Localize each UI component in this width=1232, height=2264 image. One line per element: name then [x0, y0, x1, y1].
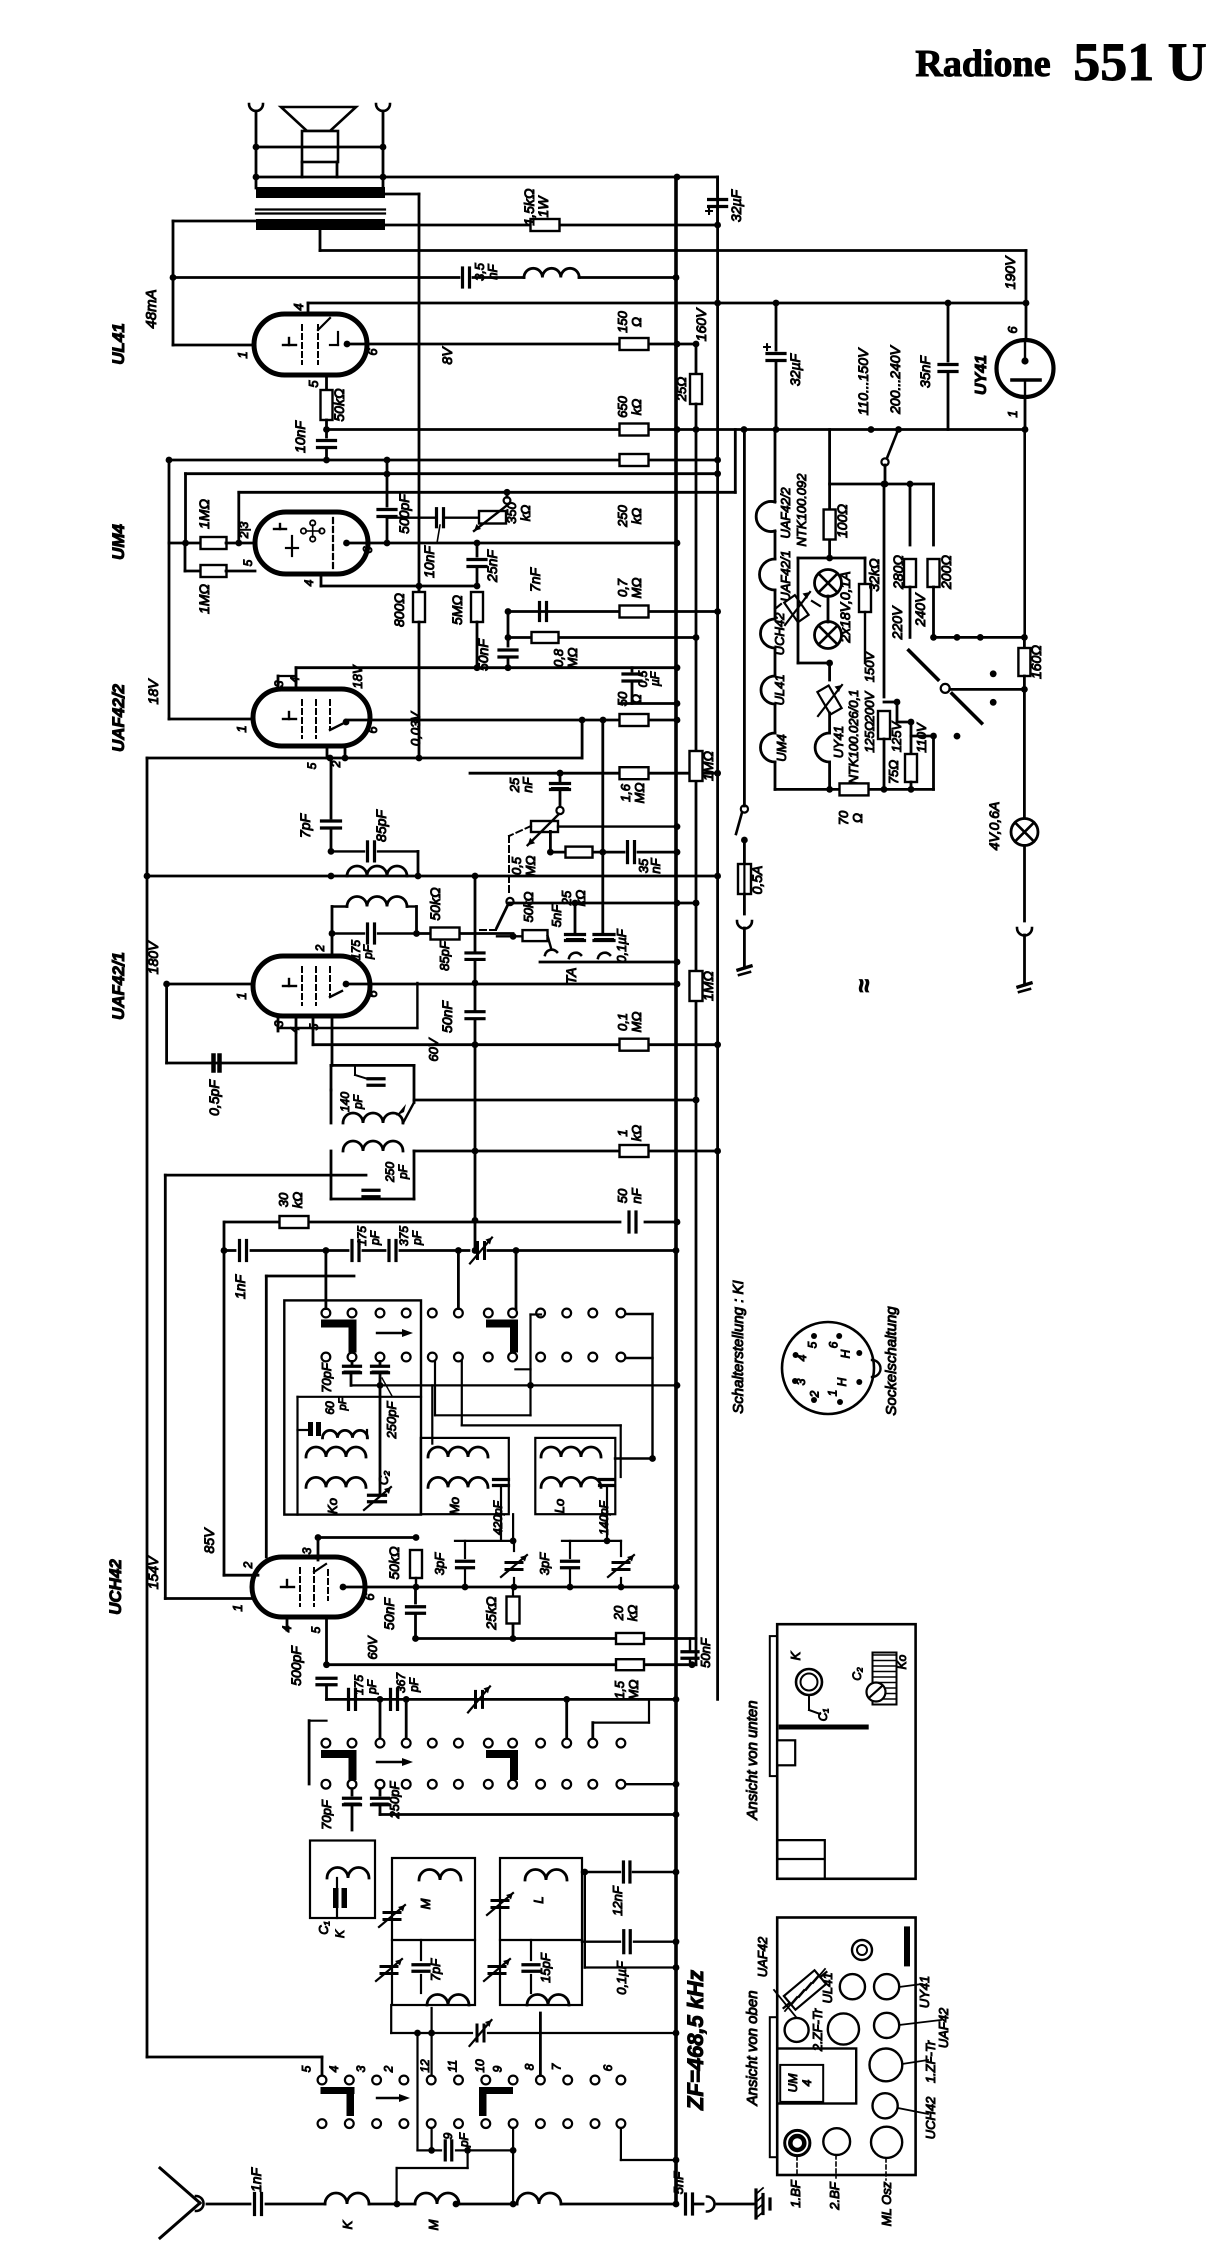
svg-text:H: H — [835, 1377, 849, 1386]
resistor 50kohm och — [410, 1550, 422, 1578]
wire transformer bottom to 190V line — [319, 230, 322, 251]
capacitor 50nF det — [466, 1010, 484, 1013]
M coil bottom — [427, 1995, 469, 2006]
resistor 1Mohm grid 1 — [169, 542, 201, 545]
heater chain bumps UAF42/2 UAF42/1 UCH42 UL41 UM4 — [774, 430, 777, 503]
svg-text:pF: pF — [368, 1230, 382, 1246]
svg-text:15pF: 15pF — [538, 1952, 553, 1983]
wire pin3 50kohm line — [318, 1536, 416, 1539]
svg-text:pF: pF — [361, 944, 375, 960]
svg-text:18V: 18V — [350, 664, 365, 688]
tube circle 2ZF-Tr — [828, 2013, 859, 2044]
switch1 enclosure — [284, 1300, 421, 1514]
svg-text:200...240V: 200...240V — [887, 344, 903, 414]
wire 20kohm line 1638 — [416, 1637, 697, 1640]
svg-text:60V: 60V — [365, 1635, 380, 1659]
svg-text:UCH42: UCH42 — [923, 2096, 938, 2139]
Ko coil b — [306, 1447, 366, 1457]
hook ant ground — [707, 2197, 715, 2212]
UM4 electrodes magic eye — [274, 528, 286, 530]
inductor smoothing choke — [524, 268, 579, 277]
UL41 pin 6 wire — [344, 341, 351, 348]
svg-text:160V: 160V — [693, 307, 709, 341]
wire pot bottom — [549, 831, 552, 852]
svg-text:6: 6 — [365, 726, 380, 734]
wire x602 TA — [601, 720, 604, 934]
svg-text:1: 1 — [615, 1129, 630, 1136]
wire anode line 303 — [308, 302, 1026, 305]
switch1 rotor contact L2 — [486, 1320, 518, 1328]
wire 1,6Mohm line 773 — [470, 772, 718, 775]
UL41 electrodes — [283, 344, 296, 346]
wire 150V tap — [894, 699, 901, 706]
trimmer antenna osc — [476, 1243, 479, 1259]
coil Ko unten — [873, 1653, 897, 1705]
chassis bar — [779, 1725, 869, 1730]
svg-text:9: 9 — [441, 2132, 455, 2139]
svg-text:1: 1 — [234, 725, 249, 732]
svg-text:25nF: 25nF — [484, 549, 500, 583]
socket pins — [793, 1352, 799, 1358]
svg-text:175: 175 — [352, 1675, 366, 1695]
resistor 25ohm on 696 — [693, 341, 700, 348]
capacitor 35nF — [947, 303, 950, 361]
svg-text:110...150V: 110...150V — [855, 347, 871, 415]
svg-text:nF: nF — [520, 776, 535, 792]
switch3 rotor L2 — [479, 2087, 513, 2094]
svg-text:UY41: UY41 — [831, 726, 846, 759]
capacitor 85pF b — [332, 932, 364, 934]
svg-text:18V: 18V — [145, 678, 161, 705]
UL41 pin 4 — [307, 303, 310, 314]
capacitor 5nF ant — [684, 2194, 687, 2214]
wire 48mA loop — [173, 220, 256, 223]
wire selector to 160ohm line — [934, 636, 1025, 639]
svg-text:50kΩ: 50kΩ — [521, 891, 536, 922]
svg-text:3: 3 — [272, 680, 286, 687]
mains voltage selector top line — [830, 483, 934, 486]
svg-text:7nF: 7nF — [527, 566, 543, 592]
wire osc line 1151 — [414, 1150, 718, 1153]
L coil bottom — [527, 1995, 569, 2006]
svg-text:2x18V,0,1A: 2x18V,0,1A — [837, 571, 853, 643]
svg-text:30: 30 — [276, 1192, 291, 1207]
wire l box mid — [500, 1939, 582, 1941]
bar right — [904, 1926, 910, 1966]
svg-text:1: 1 — [826, 1390, 840, 1397]
svg-text:20: 20 — [611, 1605, 626, 1621]
resistor 160ohm — [1023, 430, 1026, 638]
svg-text:pF: pF — [351, 1094, 365, 1110]
capacitor 140pF — [368, 1077, 384, 1080]
wire pin3 elbow — [416, 983, 418, 1028]
svg-text:250pF: 250pF — [384, 1401, 399, 1440]
switch1 interconnects — [351, 1384, 677, 1386]
wire line 492 wiper — [239, 491, 736, 494]
speaker terminal hook right — [376, 104, 390, 111]
wire line 667 pin3 UAF42/2 — [296, 666, 677, 669]
dial lamps box — [798, 557, 865, 560]
svg-text:Ko: Ko — [895, 1654, 909, 1669]
svg-text:6: 6 — [827, 1341, 841, 1348]
resistor 250kohm — [620, 454, 649, 466]
svg-text:650: 650 — [615, 395, 630, 417]
wire 9pF return to antenna line — [467, 2150, 469, 2168]
wire speaker right — [382, 111, 385, 188]
wire 60V line 1044 — [313, 1043, 718, 1046]
svg-text:8: 8 — [522, 2063, 536, 2070]
capacitor 7nF — [538, 603, 541, 621]
capacitor 3,5nF — [461, 268, 464, 287]
capacitor 3pF 2 — [569, 1541, 571, 1558]
svg-text:UM4: UM4 — [774, 734, 789, 761]
thermistor NTK100.026 — [817, 686, 841, 715]
svg-text:5: 5 — [305, 762, 319, 769]
switch3 row contacts — [318, 2076, 327, 2085]
svg-text:6: 6 — [362, 1593, 377, 1601]
svg-text:1,5: 1,5 — [612, 1680, 627, 1699]
pilot lamp 4V 0,6A — [1011, 819, 1038, 846]
wire 3pF hang line 1 — [455, 1540, 513, 1542]
capacitor 10nF — [318, 439, 336, 442]
svg-text:pF: pF — [457, 2132, 471, 2148]
svg-text:nF: nF — [648, 857, 663, 873]
svg-text:Ko: Ko — [325, 1498, 340, 1514]
switch4 row contacts — [318, 2119, 327, 2128]
dashed linkage — [509, 826, 531, 836]
svg-text:140pF: 140pF — [597, 1500, 611, 1535]
capacitor 0,5pF — [165, 984, 168, 1063]
svg-text:190V: 190V — [1002, 255, 1018, 289]
svg-text:+: + — [763, 340, 772, 356]
svg-text:10nF: 10nF — [292, 420, 308, 453]
svg-text:H: H — [839, 1349, 853, 1358]
switch1 rotor contact L1 — [321, 1320, 356, 1328]
svg-text:4V,0,6A: 4V,0,6A — [986, 802, 1002, 851]
svg-text:kΩ: kΩ — [625, 1605, 640, 1622]
svg-text:0,5: 0,5 — [509, 856, 524, 875]
Ko coil a — [323, 1430, 368, 1437]
svg-text:5: 5 — [300, 2065, 314, 2072]
svg-text:70pF: 70pF — [319, 1362, 334, 1393]
resistor 0,7Mohm — [620, 606, 649, 618]
svg-text:kΩ: kΩ — [629, 508, 644, 525]
svg-text:UCH42: UCH42 — [106, 1559, 125, 1615]
svg-text:1.ZF-Tr: 1.ZF-Tr — [923, 2040, 938, 2083]
svg-text:10: 10 — [473, 2059, 487, 2073]
svg-text:150V: 150V — [862, 650, 877, 682]
svg-text:50kΩ: 50kΩ — [386, 1546, 402, 1580]
svg-text:1MΩ: 1MΩ — [196, 584, 212, 614]
tube UM4 — [255, 512, 368, 574]
tube circle UY41 oben — [874, 1974, 899, 1999]
capacitor 1nF antenna — [207, 2203, 250, 2206]
svg-text:6: 6 — [601, 2064, 615, 2071]
transformer core — [256, 208, 385, 210]
svg-text:12: 12 — [418, 2059, 432, 2073]
svg-text:5nF: 5nF — [549, 904, 564, 927]
svg-text:4: 4 — [280, 1625, 294, 1632]
svg-text:100Ω: 100Ω — [834, 504, 850, 538]
svg-text:UM: UM — [786, 2074, 800, 2093]
wire line 1967 to bus — [585, 1966, 676, 1968]
left notch — [777, 1740, 795, 1765]
svg-text:6: 6 — [365, 990, 380, 998]
wire lamp branch — [828, 430, 831, 559]
svg-text:pF: pF — [410, 1230, 424, 1246]
svg-text:2: 2 — [807, 1390, 821, 1398]
Mo coil a — [428, 1447, 488, 1457]
wire line 703 — [619, 702, 677, 705]
svg-text:2.BF: 2.BF — [827, 2181, 842, 2211]
speaker terminal hook left — [249, 104, 263, 111]
wire 1nF line 1250 — [223, 1222, 226, 1575]
trimmer C2 — [369, 1494, 386, 1497]
resistor 20kohm — [616, 1633, 644, 1644]
crystal symbol — [778, 1965, 832, 2015]
resistor 32kohm lamp shunt — [864, 558, 867, 584]
trimmer l1 — [492, 1899, 508, 1902]
svg-text:UY41: UY41 — [973, 355, 990, 395]
svg-text:9: 9 — [491, 2065, 505, 2072]
svg-text:250: 250 — [383, 1162, 397, 1183]
wire 140pF to 1Mohm line — [414, 1099, 696, 1102]
svg-text:240V: 240V — [912, 592, 928, 627]
svg-text:0,5A: 0,5A — [749, 866, 765, 895]
svg-text:85pF: 85pF — [373, 809, 389, 842]
C1 box coil — [327, 1868, 369, 1879]
output transformer winding primary — [256, 187, 385, 198]
svg-text:K: K — [333, 1929, 347, 1938]
svg-text:UAF42/2: UAF42/2 — [778, 487, 793, 539]
tube circle UAF42 oben — [785, 2018, 809, 2042]
UAF42/1 pin1 — [167, 983, 253, 986]
svg-text:nF: nF — [629, 1187, 644, 1203]
svg-text:UL41: UL41 — [820, 1972, 835, 2003]
svg-text:NTK100.026/0,1: NTK100.026/0,1 — [846, 690, 861, 785]
tube circle UAF42b oben — [874, 2013, 899, 2038]
ta jack 2 — [569, 953, 581, 958]
svg-text:4: 4 — [302, 579, 316, 586]
UAF42/1 pin2 — [331, 934, 334, 957]
Lo coil a — [541, 1447, 601, 1457]
svg-text:Ω: Ω — [850, 813, 865, 823]
svg-text:4: 4 — [795, 1354, 809, 1361]
svg-text:MΩ: MΩ — [565, 648, 580, 669]
svg-text:6: 6 — [360, 546, 375, 554]
switch3 rotor L1 — [321, 2087, 355, 2094]
svg-text:UAF42/1: UAF42/1 — [109, 952, 128, 1020]
wire x475 vert — [474, 876, 477, 951]
wire osc grid line 1699 — [327, 1698, 677, 1701]
svg-text:UAF42: UAF42 — [936, 2007, 951, 2048]
wire 12nF line 1872 — [582, 1871, 620, 1873]
capacitor 10nF coupling — [387, 517, 434, 519]
capacitor 3pF 1 — [464, 1541, 466, 1558]
svg-text:kΩ: kΩ — [290, 1192, 305, 1209]
tube UAF42/2 — [253, 689, 370, 746]
svg-text:5: 5 — [306, 380, 321, 388]
UAF42/1 pins bottom 3 4 5 — [277, 1016, 280, 1031]
voltage selector rotary switch — [909, 650, 938, 679]
svg-text:48mA: 48mA — [143, 289, 160, 328]
resistor 50kohm if — [431, 928, 460, 940]
resistor 100ohm — [824, 510, 836, 540]
capacitor 15pF — [530, 1940, 532, 1960]
svg-text:1: 1 — [234, 992, 249, 999]
wire 25kohm 35nF line 852 — [550, 851, 624, 854]
svg-text:50: 50 — [615, 1188, 630, 1203]
svg-text:2.ZF-Tr: 2.ZF-Tr — [810, 2008, 825, 2052]
Lo box — [535, 1438, 615, 1514]
svg-text:6: 6 — [365, 348, 380, 356]
svg-text:367: 367 — [394, 1672, 408, 1693]
capacitor 35nF series — [626, 842, 629, 863]
capacitor 85pF on 475 — [466, 951, 484, 954]
wire 3,5nF line — [173, 276, 459, 279]
svg-text:MΩ: MΩ — [629, 1012, 644, 1033]
svg-text:500pF: 500pF — [288, 1645, 304, 1686]
UY41 pin 6 — [1025, 251, 1028, 341]
wire 0,8Mohm line 637 — [508, 636, 696, 639]
L coil top — [525, 1870, 567, 1881]
tube UAF42/1 — [253, 956, 370, 1016]
svg-text:32kΩ: 32kΩ — [866, 558, 882, 592]
capacitor 7pF m — [420, 1940, 422, 1960]
UCH42 pins 4 5 — [286, 1617, 289, 1630]
svg-text:ML Osz: ML Osz — [879, 2181, 894, 2226]
svg-text:5MΩ: 5MΩ — [449, 595, 465, 625]
resistor 1,5Mohm — [616, 1659, 644, 1670]
wire line 302 right segment — [1023, 300, 1030, 307]
wire fuse to plug — [743, 894, 746, 914]
svg-text:Lo: Lo — [552, 1499, 567, 1513]
svg-text:C₁: C₁ — [816, 1709, 830, 1722]
svg-text:4: 4 — [291, 303, 306, 310]
wire line 903 — [509, 902, 696, 905]
svg-text:200Ω: 200Ω — [938, 555, 954, 590]
140pF box coil — [343, 1113, 403, 1123]
UM4 pin stubs — [226, 542, 255, 545]
resistor 800ohm — [418, 586, 421, 592]
wire stubs osc row — [379, 1699, 382, 1738]
svg-text:150: 150 — [615, 310, 630, 332]
Lo coil b — [541, 1477, 601, 1487]
bus dots — [693, 1097, 700, 1104]
resistor 50kohm ta — [510, 933, 517, 940]
resistor 75ohm — [905, 754, 917, 782]
capacitor 250pF osc2 — [379, 1789, 382, 1795]
svg-text:Ω: Ω — [629, 317, 644, 327]
svg-text:5: 5 — [309, 1626, 323, 1633]
wire 0,1uF line 1941 — [582, 1940, 620, 1942]
ta jack 1 — [548, 936, 551, 948]
switch2 row2 contacts — [322, 1780, 331, 1789]
wire pot to bus 826 — [558, 825, 677, 827]
wire 85V in — [224, 1574, 258, 1577]
svg-text:32µF: 32µF — [728, 188, 744, 222]
svg-text:nF: nF — [485, 263, 500, 279]
trimmer 70pF osc — [351, 1789, 354, 1795]
UCH42 pin1 — [165, 1597, 254, 1600]
svg-text:0,8: 0,8 — [551, 648, 566, 667]
Ko box cap 60pF — [308, 1422, 313, 1436]
circle 2.BF — [823, 2128, 850, 2155]
IF transformer 1 cap 85pF — [331, 850, 364, 852]
250pF box coil — [343, 1141, 403, 1151]
UL41 pin 1 — [173, 344, 254, 347]
screw Ko — [867, 1683, 886, 1702]
svg-text:UAF42/1: UAF42/1 — [778, 550, 793, 601]
svg-text:50nF: 50nF — [381, 1597, 397, 1630]
svg-text:3: 3 — [794, 1378, 808, 1385]
circle ML Osz — [871, 2127, 902, 2158]
wire line 877 — [147, 875, 718, 878]
svg-text:2: 2 — [241, 1561, 255, 1569]
fuse 0,5A — [743, 840, 746, 864]
dial lamp 1 — [815, 570, 842, 597]
svg-text:551 U: 551 U — [1073, 32, 1207, 92]
capacitor 32uF electrolytic top — [716, 177, 719, 196]
trimmer och — [474, 1691, 477, 1707]
svg-text:280Ω: 280Ω — [890, 555, 906, 590]
UY41 pin 1 — [1024, 397, 1027, 430]
svg-text:140: 140 — [338, 1092, 352, 1112]
resistor 70ohm — [840, 783, 869, 795]
trimmer mo — [513, 1541, 515, 1551]
svg-text:K: K — [340, 2219, 355, 2229]
resistor 280ohm — [909, 484, 912, 545]
resistor 0,8Mohm — [532, 632, 559, 643]
capacitor 250pF — [331, 1198, 414, 1201]
antenna coil M — [369, 2203, 415, 2206]
capacitor 500pF och — [317, 1677, 336, 1680]
svg-text:3pF: 3pF — [432, 1552, 447, 1575]
svg-text:85V: 85V — [201, 1527, 217, 1554]
switch TA 2 — [506, 898, 513, 905]
svg-text:220V: 220V — [889, 605, 905, 640]
capacitor 420pF — [494, 1478, 509, 1481]
svg-text:kΩ: kΩ — [518, 505, 533, 522]
svg-text:50nF: 50nF — [698, 1637, 713, 1668]
svg-text:70: 70 — [836, 810, 851, 825]
svg-text:Ansicht von oben: Ansicht von oben — [744, 1990, 761, 2106]
UCH42 electrodes — [281, 1586, 294, 1588]
bus chassis x676 — [674, 177, 678, 2204]
svg-text:5: 5 — [806, 1341, 820, 1348]
resistor 1kohm — [620, 1145, 649, 1157]
screw oben — [852, 1940, 872, 1960]
svg-text:60V: 60V — [426, 1037, 441, 1061]
tube circle 1ZF-Tr — [870, 2049, 903, 2082]
resistor 1Mohm grid 2 — [184, 543, 187, 571]
wire row2 to bus — [627, 1783, 676, 1785]
svg-text:800Ω: 800Ω — [391, 593, 407, 627]
svg-text:1,6: 1,6 — [618, 783, 633, 802]
IF transformer 1 coil primary — [347, 866, 407, 876]
Ansicht von unten box — [777, 1624, 915, 1879]
UAF42/2 pins 5 2 — [326, 746, 329, 758]
wire stub row4 x513 — [512, 2128, 514, 2204]
switch3 arrow — [377, 2097, 404, 2099]
svg-text:1: 1 — [235, 351, 250, 358]
C1 box — [310, 1841, 375, 1919]
resistor 200ohm — [932, 484, 935, 545]
wire speaker cone stubs — [301, 162, 304, 177]
svg-text:1nF: 1nF — [248, 2166, 264, 2192]
svg-text:1MΩ: 1MΩ — [700, 751, 716, 781]
svg-text:50nF: 50nF — [475, 638, 491, 671]
